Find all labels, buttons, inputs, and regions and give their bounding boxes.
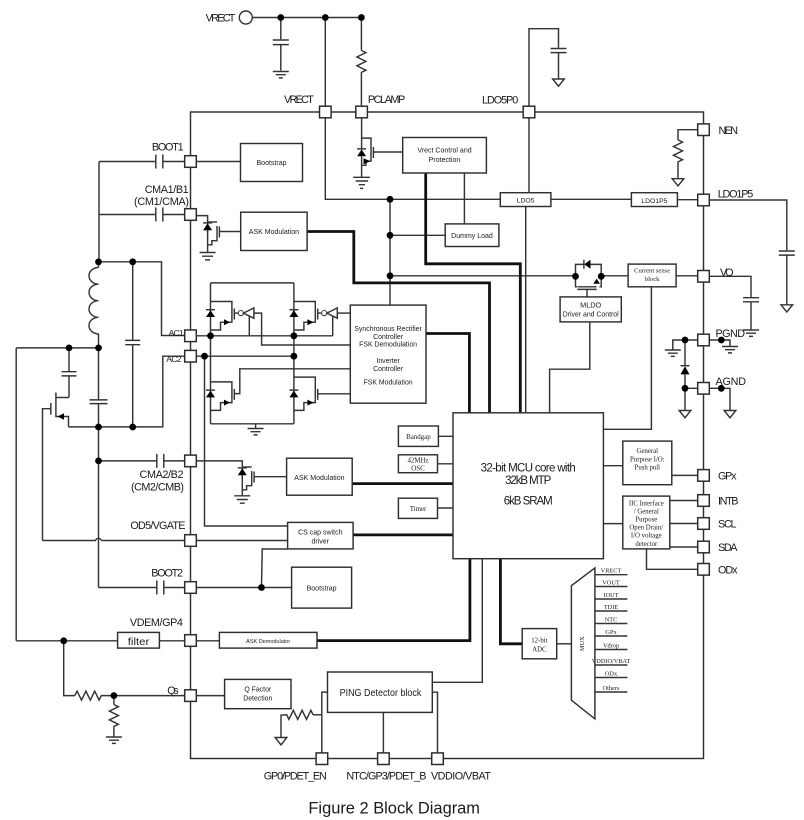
svg-text:Bandgap: Bandgap (406, 434, 431, 441)
svg-text:PCLAMP: PCLAMP (368, 94, 405, 106)
svg-text:42MHz: 42MHz (407, 457, 428, 464)
svg-text:Controller: Controller (373, 366, 404, 373)
svg-text:Synchronous Rectifier: Synchronous Rectifier (354, 326, 422, 333)
svg-text:Others: Others (603, 685, 620, 692)
svg-text:LDO1P5: LDO1P5 (641, 198, 667, 205)
svg-text:Figure 2 Block Diagram: Figure 2 Block Diagram (308, 799, 480, 818)
svg-text:PGND: PGND (716, 328, 746, 340)
svg-text:OSC: OSC (411, 465, 425, 472)
svg-text:ASK Demodulator: ASK Demodulator (246, 639, 290, 645)
svg-text:Qs: Qs (167, 685, 179, 697)
svg-text:VDDIO/VBAT: VDDIO/VBAT (592, 658, 631, 665)
svg-text:ASK Modulation: ASK Modulation (294, 475, 344, 482)
svg-text:MLDO: MLDO (580, 301, 601, 310)
svg-text:GPx: GPx (605, 629, 617, 636)
svg-text:Controller: Controller (373, 334, 404, 341)
svg-text:/ General: / General (634, 508, 659, 515)
svg-text:(CM1/CMA): (CM1/CMA) (134, 196, 189, 208)
svg-text:Detection: Detection (243, 696, 272, 703)
svg-text:IOUT: IOUT (603, 592, 618, 599)
svg-text:ODx: ODx (718, 564, 738, 576)
svg-text:I/O voltage: I/O voltage (631, 533, 662, 540)
svg-text:PING Detector block: PING Detector block (340, 688, 422, 699)
svg-text:32-bit MCU core with: 32-bit MCU core with (481, 463, 576, 475)
svg-text:AC2: AC2 (166, 354, 181, 364)
svg-text:TDIE: TDIE (604, 604, 618, 611)
svg-text:FSK Demodulation: FSK Demodulation (359, 342, 417, 349)
svg-text:VOUT: VOUT (602, 580, 620, 587)
svg-text:12-bit: 12-bit (531, 638, 547, 645)
svg-text:VDDIO/VBAT: VDDIO/VBAT (431, 771, 491, 783)
svg-text:INTB: INTB (718, 496, 739, 508)
svg-text:CMA2/B2: CMA2/B2 (140, 469, 184, 481)
svg-text:NTC: NTC (605, 617, 618, 624)
svg-text:ASK Modulation: ASK Modulation (249, 229, 299, 236)
svg-text:Vrect Control and: Vrect Control and (417, 148, 471, 155)
svg-text:VO: VO (720, 267, 734, 279)
svg-text:LDO5: LDO5 (517, 198, 535, 205)
svg-text:CMA1/B1: CMA1/B1 (145, 184, 189, 196)
svg-text:detector: detector (635, 541, 658, 548)
svg-text:NTC/GP3/PDET_B: NTC/GP3/PDET_B (346, 771, 426, 783)
svg-text:Dummy Load: Dummy Load (451, 233, 493, 240)
svg-text:VRECT: VRECT (206, 12, 236, 24)
svg-text:BOOT2: BOOT2 (151, 568, 183, 580)
svg-text:BOOT1: BOOT1 (152, 141, 184, 153)
svg-text:VRECT: VRECT (284, 94, 314, 106)
svg-text:Driver and Control: Driver and Control (563, 310, 619, 319)
svg-text:Inverter: Inverter (376, 358, 400, 365)
svg-text:MUX: MUX (579, 636, 586, 651)
svg-text:ODx: ODx (605, 671, 618, 678)
svg-text:OD5/VGATE: OD5/VGATE (130, 520, 185, 532)
svg-text:Q Factor: Q Factor (244, 687, 272, 694)
svg-text:32kB MTP: 32kB MTP (505, 475, 552, 487)
svg-text:Purpose I/O:: Purpose I/O: (630, 456, 665, 463)
svg-text:GPx: GPx (718, 471, 737, 483)
svg-text:Current sense: Current sense (634, 268, 670, 275)
svg-text:SDA: SDA (718, 542, 738, 554)
svg-text:6kB SRAM: 6kB SRAM (504, 496, 553, 508)
svg-text:VRECT: VRECT (601, 568, 622, 575)
svg-text:GP0/PDET_EN: GP0/PDET_EN (264, 771, 327, 783)
svg-text:VDEM/GP4: VDEM/GP4 (130, 617, 183, 629)
svg-text:FSK Modulation: FSK Modulation (364, 380, 413, 387)
svg-text:Bootstrap: Bootstrap (257, 160, 287, 167)
svg-text:LDO5P0: LDO5P0 (482, 95, 518, 107)
svg-text:Open Drain/: Open Drain/ (629, 525, 663, 532)
svg-text:CS cap switch: CS cap switch (298, 530, 342, 537)
svg-text:NEN: NEN (719, 125, 739, 137)
svg-text:LDO1P5: LDO1P5 (718, 189, 754, 201)
svg-text:ADC: ADC (532, 647, 547, 654)
svg-text:Vdrop: Vdrop (603, 643, 619, 650)
svg-text:block: block (645, 276, 660, 283)
svg-text:driver: driver (312, 539, 330, 546)
svg-text:Timer: Timer (410, 506, 427, 513)
svg-text:General: General (637, 448, 659, 455)
svg-text:(CM2/CMB): (CM2/CMB) (131, 482, 184, 494)
svg-text:Bootstrap: Bootstrap (307, 586, 337, 593)
svg-text:AC1: AC1 (169, 328, 184, 338)
svg-text:AGND: AGND (716, 376, 747, 388)
svg-text:SCL: SCL (718, 519, 737, 531)
svg-text:Push pull: Push pull (635, 465, 661, 472)
svg-text:IIC Interface: IIC Interface (629, 500, 664, 507)
svg-text:filter: filter (128, 636, 150, 648)
svg-text:Purpose: Purpose (635, 517, 657, 524)
svg-text:Protection: Protection (429, 157, 461, 164)
